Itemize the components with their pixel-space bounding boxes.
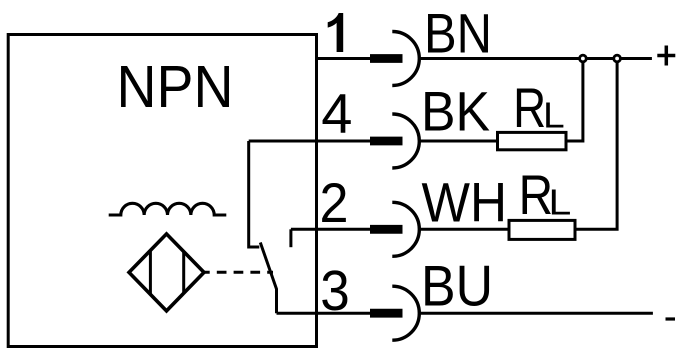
node A junction circle bbox=[580, 55, 587, 62]
minus terminal bbox=[666, 317, 676, 320]
wire BK to resistor bbox=[420, 140, 497, 143]
svg-text:4: 4 bbox=[321, 82, 352, 145]
node B junction circle bbox=[614, 55, 621, 62]
svg-text:2: 2 bbox=[320, 171, 349, 234]
svg-text:L: L bbox=[543, 94, 565, 135]
svg-text:BN: BN bbox=[424, 2, 492, 65]
wire pin4 vertical to switch contact bbox=[249, 141, 260, 247]
resistor RL2 bbox=[509, 220, 575, 239]
svg-text:R: R bbox=[513, 76, 546, 139]
inductor L1 (sensor coil) bbox=[109, 203, 227, 215]
dashed actuation line bbox=[204, 271, 273, 274]
sensor symbol right chord bbox=[182, 252, 185, 294]
connector pin3 socket arc bbox=[392, 286, 419, 340]
svg-text:NPN: NPN bbox=[117, 54, 234, 120]
wire pin2 bbox=[291, 228, 372, 231]
plus terminal bbox=[657, 46, 675, 66]
wire pin1 stub bbox=[317, 57, 373, 60]
connector pin1 socket arc bbox=[392, 32, 419, 86]
wire BK resistor to node A bbox=[566, 59, 583, 142]
svg-text:L: L bbox=[549, 182, 572, 223]
svg-text:BK: BK bbox=[421, 80, 490, 143]
switch contact hook from pin2 bbox=[289, 229, 292, 247]
wire pin3 bbox=[277, 312, 373, 315]
wire BN to plus bbox=[420, 57, 652, 60]
connector pin2 contact bar bbox=[370, 225, 403, 234]
wire WH to resistor bbox=[420, 228, 509, 231]
pin number 1 bbox=[328, 13, 344, 52]
svg-text:3: 3 bbox=[320, 259, 350, 323]
svg-text:WH: WH bbox=[422, 171, 508, 234]
sensor symbol left chord bbox=[149, 250, 152, 294]
connector pin4 socket arc bbox=[392, 114, 419, 168]
connector pin1 contact bar bbox=[370, 54, 403, 63]
wire WH resistor to node B bbox=[575, 59, 617, 230]
resistor RL1 bbox=[498, 132, 567, 149]
connector pin3 contact bar bbox=[370, 309, 403, 318]
connector pin2 socket arc bbox=[392, 202, 419, 256]
switch S1 blade bbox=[260, 243, 276, 314]
connector pin4 contact bar bbox=[370, 137, 403, 146]
svg-text:BU: BU bbox=[421, 255, 493, 319]
sensor body box bbox=[8, 35, 316, 347]
wire BU to minus bbox=[420, 312, 653, 315]
wire pin4 bbox=[249, 140, 372, 143]
proximity sensor symbol (diamond) bbox=[129, 234, 204, 311]
